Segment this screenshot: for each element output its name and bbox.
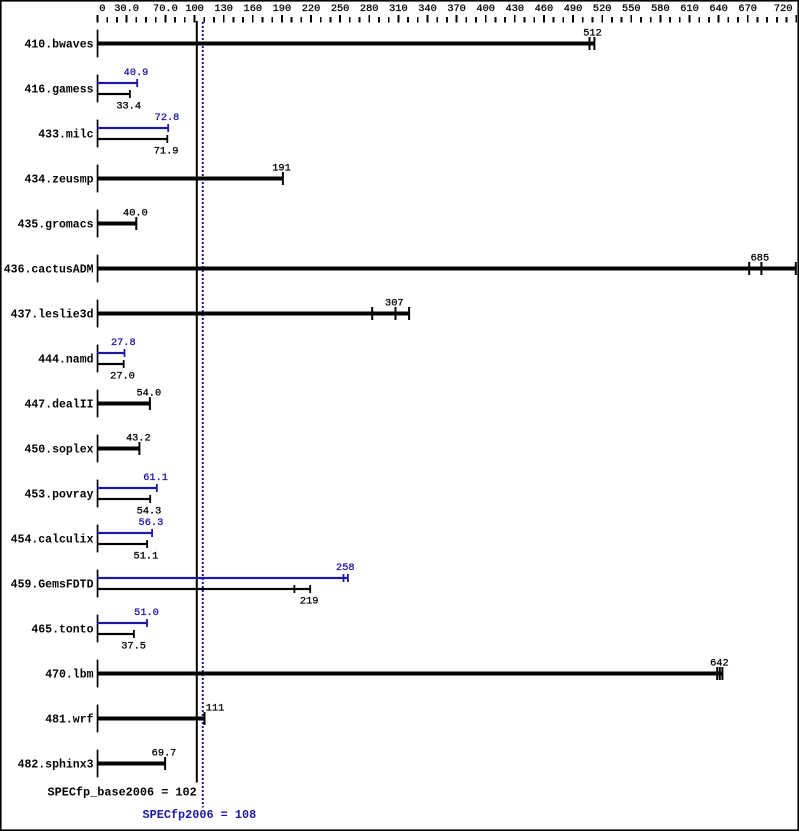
- row 481.wrf : base value label 111: [206, 703, 225, 715]
- row 482.sphinx3 : base value label 69.7: [152, 748, 177, 760]
- svg-text:416.gamess: 416.gamess: [24, 83, 93, 96]
- svg-text:70.0: 70.0: [153, 3, 178, 15]
- svg-text:642: 642: [710, 658, 729, 670]
- svg-text:219: 219: [300, 596, 319, 608]
- row 454.calculix : peak bar (blue): [97, 529, 153, 537]
- row 465.tonto : peak bar (blue): [97, 619, 148, 627]
- svg-text:40.0: 40.0: [123, 208, 148, 220]
- row 450.soplex : base value label 43.2: [126, 433, 151, 445]
- svg-text:640: 640: [709, 3, 728, 15]
- svg-text:258: 258: [336, 562, 355, 574]
- row 454.calculix : peak value label 56.3: [139, 517, 164, 529]
- axis tick marks (top scale 0-720): [97, 15, 798, 23]
- row 416.gamess : benchmark name label: [24, 83, 93, 96]
- row 434.zeusmp : base value label 191: [272, 163, 291, 175]
- row 433.milc : peak bar (blue): [97, 124, 169, 132]
- row 447.dealII : zero axis stub: [97, 390, 99, 418]
- row 444.namd : peak bar (blue): [97, 349, 125, 357]
- row 465.tonto : base value label 37.5: [121, 641, 146, 653]
- svg-text:72.8: 72.8: [155, 112, 180, 124]
- svg-text:550: 550: [622, 3, 641, 15]
- svg-text:400: 400: [476, 3, 495, 15]
- summary text SPECfp2006 (peak, blue): [143, 808, 257, 822]
- row 410.bwaves : benchmark name label: [24, 38, 93, 51]
- svg-text:54.0: 54.0: [136, 388, 161, 400]
- svg-text:454.calculix: 454.calculix: [11, 533, 94, 546]
- row 433.milc : peak value label 72.8: [155, 112, 180, 124]
- svg-text:220: 220: [302, 3, 321, 15]
- row 482.sphinx3 : benchmark name label: [18, 758, 94, 771]
- svg-text:30.0: 30.0: [114, 3, 139, 15]
- row 447.dealII : base bar (black) with run marks: [97, 397, 151, 410]
- svg-text:54.3: 54.3: [137, 506, 162, 518]
- svg-text:40.9: 40.9: [124, 67, 149, 79]
- row 459.GemsFDTD : zero axis stub: [97, 570, 99, 598]
- svg-text:69.7: 69.7: [152, 748, 177, 760]
- svg-text:160: 160: [244, 3, 263, 15]
- row 453.povray : peak bar (blue): [97, 484, 158, 492]
- row 444.namd : base bar (black): [97, 360, 125, 368]
- row 459.GemsFDTD : benchmark name label: [11, 578, 94, 591]
- row 481.wrf : benchmark name label: [45, 713, 93, 726]
- svg-text:447.dealII: 447.dealII: [24, 398, 93, 411]
- row 453.povray : base bar (black): [97, 495, 151, 503]
- row 459.GemsFDTD : base bar (black): [97, 585, 311, 593]
- row 454.calculix : zero axis stub: [97, 525, 99, 553]
- row 481.wrf : zero axis stub: [97, 705, 99, 733]
- row 450.soplex : benchmark name label: [24, 443, 93, 456]
- row 434.zeusmp : benchmark name label: [24, 173, 93, 186]
- svg-text:56.3: 56.3: [139, 517, 164, 529]
- row 435.gromacs : base bar (black) with run marks: [97, 217, 137, 230]
- row 437.leslie3d : zero axis stub: [97, 300, 99, 328]
- svg-text:190: 190: [273, 3, 292, 15]
- svg-text:61.1: 61.1: [143, 472, 168, 484]
- svg-text:470.lbm: 470.lbm: [45, 668, 93, 681]
- svg-text:435.gromacs: 435.gromacs: [18, 218, 94, 231]
- row 470.lbm : base value label 642: [710, 658, 729, 670]
- row 444.namd : zero axis stub: [97, 345, 99, 373]
- svg-text:0: 0: [99, 3, 105, 15]
- row 433.milc : base value label 71.9: [154, 146, 179, 158]
- svg-text:670: 670: [738, 3, 757, 15]
- row 465.tonto : peak value label 51.0: [134, 607, 159, 619]
- svg-text:444.namd: 444.namd: [38, 353, 93, 366]
- svg-text:512: 512: [583, 28, 602, 40]
- svg-text:465.tonto: 465.tonto: [31, 623, 93, 636]
- row 481.wrf : base bar (black) with run marks: [97, 712, 206, 725]
- row 470.lbm : benchmark name label: [45, 668, 93, 681]
- svg-text:450.soplex: 450.soplex: [24, 443, 93, 456]
- svg-text:453.povray: 453.povray: [24, 488, 93, 501]
- svg-text:191: 191: [272, 163, 291, 175]
- row 465.tonto : base bar (black): [97, 630, 135, 638]
- row 450.soplex : base bar (black) with run marks: [97, 442, 140, 455]
- row 437.leslie3d : benchmark name label: [11, 308, 94, 321]
- svg-text:430: 430: [506, 3, 525, 15]
- svg-text:310: 310: [389, 3, 408, 15]
- svg-text:43.2: 43.2: [126, 433, 151, 445]
- row 416.gamess : base bar (black): [97, 90, 131, 98]
- svg-text:250: 250: [331, 3, 350, 15]
- row 433.milc : benchmark name label: [38, 128, 93, 141]
- svg-text:490: 490: [564, 3, 583, 15]
- svg-text:33.4: 33.4: [116, 101, 141, 113]
- base mean line (SPECfp_base2006 = 102): [196, 21, 198, 783]
- row 453.povray : benchmark name label: [24, 488, 93, 501]
- svg-text:51.0: 51.0: [134, 607, 159, 619]
- svg-text:307: 307: [385, 298, 404, 310]
- summary text SPECfp_base2006: [48, 786, 197, 800]
- svg-text:280: 280: [360, 3, 379, 15]
- svg-text:580: 580: [651, 3, 670, 15]
- row 453.povray : base value label 54.3: [137, 506, 162, 518]
- svg-text:436.cactusADM: 436.cactusADM: [4, 263, 94, 276]
- row 482.sphinx3 : base bar (black) with run marks: [97, 757, 166, 770]
- row 470.lbm : base bar (black) with run marks: [97, 667, 723, 680]
- svg-text:459.GemsFDTD: 459.GemsFDTD: [11, 578, 94, 591]
- row 454.calculix : base bar (black): [97, 540, 148, 548]
- svg-text:111: 111: [206, 703, 225, 715]
- row 465.tonto : zero axis stub: [97, 615, 99, 643]
- row 416.gamess : base value label 33.4: [116, 101, 141, 113]
- row 437.leslie3d : base bar (black) with run marks: [97, 307, 410, 320]
- row 436.cactusADM : base value label 685: [751, 253, 770, 265]
- svg-text:37.5: 37.5: [121, 641, 146, 653]
- svg-text:720: 720: [774, 3, 793, 15]
- axis scale labels: [99, 3, 792, 15]
- svg-text:27.8: 27.8: [111, 337, 136, 349]
- svg-text:481.wrf: 481.wrf: [45, 713, 93, 726]
- row 433.milc : base bar (black): [97, 135, 168, 143]
- row 410.bwaves : base value label 512: [583, 28, 602, 40]
- svg-text:130: 130: [214, 3, 233, 15]
- svg-text:610: 610: [680, 3, 699, 15]
- row 410.bwaves : base bar (black) with run marks: [97, 37, 595, 50]
- svg-text:370: 370: [447, 3, 466, 15]
- row 416.gamess : zero axis stub: [97, 75, 99, 103]
- row 433.milc : zero axis stub: [97, 120, 99, 148]
- row 453.povray : zero axis stub: [97, 480, 99, 508]
- row 447.dealII : benchmark name label: [24, 398, 93, 411]
- row 454.calculix : benchmark name label: [11, 533, 94, 546]
- svg-text:460: 460: [535, 3, 554, 15]
- row 459.GemsFDTD : base value label 219: [300, 596, 319, 608]
- row 436.cactusADM : zero axis stub: [97, 255, 99, 283]
- svg-text:100: 100: [185, 3, 204, 15]
- svg-text:SPECfp_base2006 = 102: SPECfp_base2006 = 102: [48, 786, 197, 800]
- row 444.namd : benchmark name label: [38, 353, 93, 366]
- svg-text:340: 340: [418, 3, 437, 15]
- row 435.gromacs : zero axis stub: [97, 210, 99, 238]
- svg-text:27.0: 27.0: [110, 371, 135, 383]
- row 437.leslie3d : base value label 307: [385, 298, 404, 310]
- row 450.soplex : zero axis stub: [97, 435, 99, 463]
- svg-text:433.milc: 433.milc: [38, 128, 93, 141]
- row 410.bwaves : zero axis stub: [97, 30, 99, 58]
- svg-text:437.leslie3d: 437.leslie3d: [11, 308, 94, 321]
- svg-text:434.zeusmp: 434.zeusmp: [24, 173, 93, 186]
- svg-text:71.9: 71.9: [154, 146, 179, 158]
- row 470.lbm : zero axis stub: [97, 660, 99, 688]
- row 459.GemsFDTD : peak bar (blue): [97, 574, 349, 582]
- row 434.zeusmp : zero axis stub: [97, 165, 99, 193]
- row 435.gromacs : benchmark name label: [18, 218, 94, 231]
- row 465.tonto : benchmark name label: [31, 623, 93, 636]
- row 436.cactusADM : benchmark name label: [4, 263, 94, 276]
- row 436.cactusADM : base bar (black) with run marks: [97, 262, 797, 275]
- svg-text:685: 685: [751, 253, 770, 265]
- svg-text:51.1: 51.1: [134, 551, 159, 563]
- svg-text:410.bwaves: 410.bwaves: [24, 38, 93, 51]
- row 434.zeusmp : base bar (black) with run marks: [97, 172, 284, 185]
- row 447.dealII : base value label 54.0: [136, 388, 161, 400]
- row 416.gamess : peak bar (blue): [97, 79, 138, 87]
- row 435.gromacs : base value label 40.0: [123, 208, 148, 220]
- row 444.namd : base value label 27.0: [110, 371, 135, 383]
- row 482.sphinx3 : zero axis stub: [97, 750, 99, 778]
- row 459.GemsFDTD : peak value label 258: [336, 562, 355, 574]
- row 416.gamess : peak value label 40.9: [124, 67, 149, 79]
- row 444.namd : peak value label 27.8: [111, 337, 136, 349]
- row 454.calculix : base value label 51.1: [134, 551, 159, 563]
- peak mean line dotted (SPECfp2006 = 108): [202, 22, 204, 808]
- svg-text:482.sphinx3: 482.sphinx3: [18, 758, 94, 771]
- svg-text:520: 520: [593, 3, 612, 15]
- svg-text:SPECfp2006 = 108: SPECfp2006 = 108: [143, 808, 257, 822]
- row 453.povray : peak value label 61.1: [143, 472, 168, 484]
